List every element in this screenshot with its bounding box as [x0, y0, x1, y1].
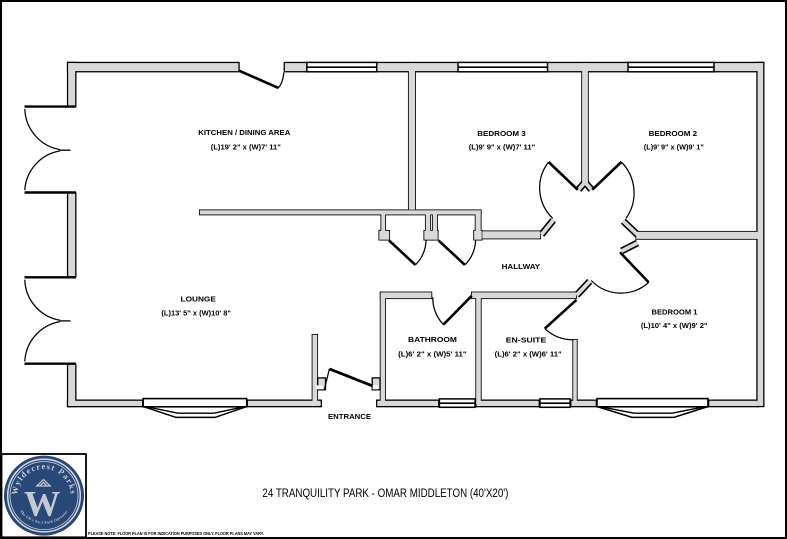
- cupboard foot 3: [474, 231, 482, 240]
- door entrance jamb tabs: [318, 378, 380, 390]
- wall fills interior (gray overlay): [200, 63, 759, 404]
- wall bathroom-ensuite divider: [476, 294, 481, 404]
- cupboard foot 1: [379, 231, 389, 240]
- jamb ensuite door: [577, 281, 590, 295]
- svg-text:W: W: [24, 484, 60, 524]
- wall left segment B: [68, 194, 75, 277]
- door entrance leaf: [324, 369, 372, 390]
- bow window lounge: [143, 399, 247, 418]
- wall bathroom left: [381, 294, 385, 404]
- diagonal jamb black underlays: [542, 183, 638, 295]
- svg-text:BEDROOM 2: BEDROOM 2: [649, 129, 698, 138]
- window top 3: [628, 62, 714, 71]
- window top 2: [458, 62, 548, 71]
- wall top segment D: [548, 63, 629, 71]
- door entrance jamb slots: [316, 385, 323, 389]
- diagonal jamb gray overlays: [542, 183, 638, 295]
- svg-text:KITCHEN / DINING AREA: KITCHEN / DINING AREA: [198, 128, 290, 137]
- wall bottom segment B: [248, 401, 321, 406]
- wall entrance stub: [313, 335, 318, 405]
- wall top segment E: [714, 63, 763, 71]
- jamb bed3 door hinge stub: [579, 183, 585, 190]
- door cupboard 1: [389, 240, 426, 265]
- door ensuite: [545, 300, 577, 340]
- logo box: [2, 454, 87, 537]
- svg-text:BEDROOM 1: BEDROOM 1: [652, 307, 698, 316]
- door cupboard 2: [439, 240, 476, 265]
- cupboard jamb 3: [433, 214, 437, 231]
- svg-text:(L)10' 4" x (W)9' 2": (L)10' 4" x (W)9' 2": [641, 323, 708, 330]
- wall left segment C: [68, 365, 75, 406]
- cupboard jamb 4: [476, 214, 481, 231]
- wall outlines exterior (black underlay): [68, 63, 763, 406]
- french doors lounge: [25, 277, 77, 363]
- logo ring outer: [8, 459, 81, 532]
- svg-text:(L)9' 9" x (W)7' 11": (L)9' 9" x (W)7' 11": [469, 145, 536, 152]
- svg-text:PLEASE NOTE: FLOOR PLAN IS FOR: PLEASE NOTE: FLOOR PLAN IS FOR INDICATIO…: [88, 531, 264, 536]
- window ensuite: [540, 399, 570, 407]
- jamb bed3 door: [542, 220, 554, 235]
- wall bottom segment C: [377, 401, 438, 406]
- wall hallway north: [482, 231, 540, 238]
- wall right: [758, 63, 764, 406]
- door bedroom2: [592, 162, 634, 218]
- wall outlines interior (black underlay): [200, 63, 759, 404]
- jamb bed2 door: [623, 221, 637, 235]
- svg-text:HALLWAY: HALLWAY: [502, 262, 541, 271]
- door kitchen entry: [239, 71, 283, 88]
- wall bottom segment D: [476, 401, 538, 406]
- svg-text:BATHROOM: BATHROOM: [408, 335, 457, 344]
- wall kitchen bottom: [200, 210, 481, 214]
- door bedroom1: [591, 252, 649, 293]
- svg-text:(L)13' 5" x (W)10' 8": (L)13' 5" x (W)10' 8": [161, 311, 231, 318]
- wall bottom segment A: [68, 401, 142, 406]
- wall bathroom top: [381, 292, 432, 298]
- svg-text:EN-SUITE: EN-SUITE: [506, 336, 547, 345]
- svg-text:(L)19' 2" x (W)7' 11": (L)19' 2" x (W)7' 11": [211, 145, 281, 152]
- bow window bedroom1: [597, 399, 708, 418]
- svg-text:ENTRANCE: ENTRANCE: [328, 412, 371, 421]
- window top 1: [307, 62, 377, 71]
- svg-text:(L)6' 2" x (W)5' 11": (L)6' 2" x (W)5' 11": [398, 352, 467, 359]
- wall ensuite top: [472, 292, 576, 298]
- cupboard jamb 1: [381, 214, 385, 231]
- wall bed2-bed1 divider: [636, 232, 758, 239]
- door bedroom3: [540, 162, 578, 218]
- logo mountain icon: [37, 480, 50, 486]
- wall left segment A: [68, 63, 75, 106]
- wall top segment A: [68, 63, 238, 71]
- french doors kitchen: [25, 107, 77, 193]
- wall bed3-bed2 divider: [582, 63, 588, 184]
- wall fills exterior (gray overlay): [68, 63, 763, 406]
- jamb bed2 door hinge stub: [586, 183, 592, 190]
- svg-text:(L)6' 2" x (W)6' 11": (L)6' 2" x (W)6' 11": [495, 352, 562, 359]
- window bathroom: [439, 399, 475, 407]
- logo ring inner: [10, 462, 78, 530]
- cupboard jamb 2: [426, 214, 430, 231]
- wall top segment B: [285, 63, 307, 71]
- wall bottom segment E: [571, 401, 595, 406]
- logo circle: [4, 456, 84, 536]
- wall bottom segment F: [709, 401, 757, 406]
- door bathroom: [433, 296, 472, 325]
- svg-text:24 TRANQUILITY PARK - OMAR MID: 24 TRANQUILITY PARK - OMAR MIDDLETON (40…: [262, 486, 508, 500]
- wall ensuite right: [573, 340, 577, 405]
- jamb bed1 door: [622, 243, 638, 251]
- wall kitchen-bed3 divider: [409, 63, 415, 210]
- svg-text:(L)9' 9" x (W)9' 1": (L)9' 9" x (W)9' 1": [644, 145, 704, 152]
- wall top segment C: [377, 63, 458, 71]
- cupboard foot 2: [424, 231, 437, 240]
- svg-text:LOUNGE: LOUNGE: [181, 294, 217, 303]
- svg-text:BEDROOM 3: BEDROOM 3: [477, 129, 526, 138]
